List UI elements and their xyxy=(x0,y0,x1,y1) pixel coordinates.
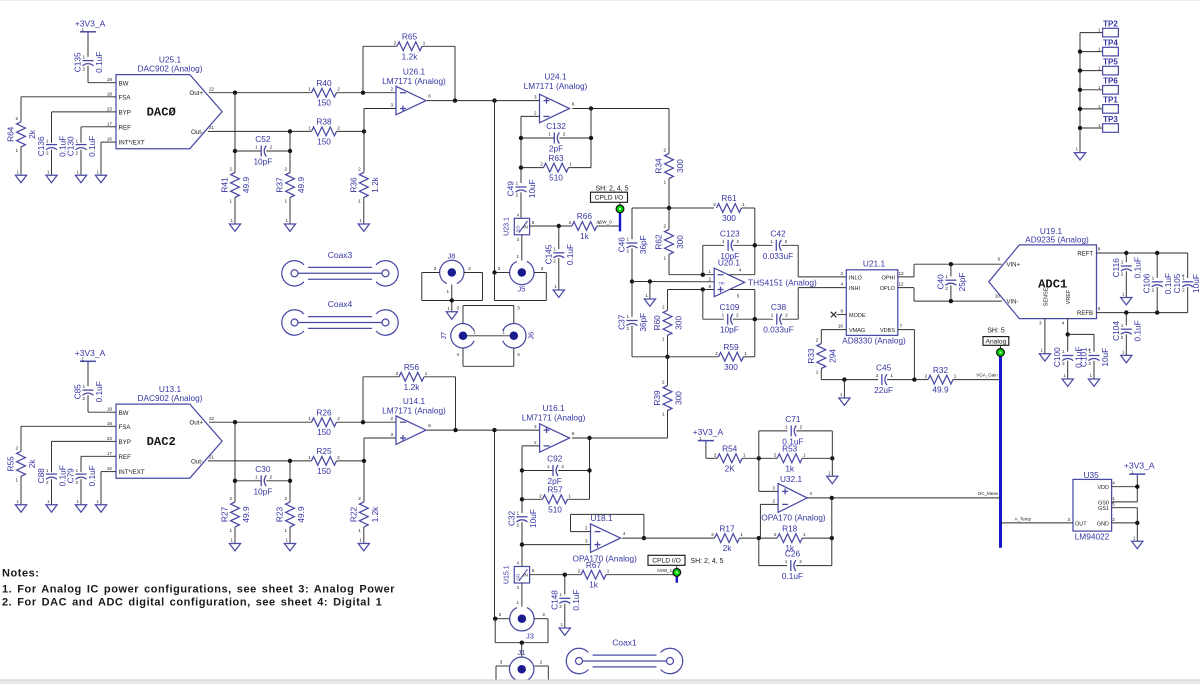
wire R37 column xyxy=(289,131,291,172)
wire xyxy=(742,457,759,459)
svg-text:C38: C38 xyxy=(771,302,787,312)
junction xyxy=(453,428,457,432)
resistor R37 49.9 xyxy=(286,173,295,198)
svg-text:2: 2 xyxy=(714,452,717,457)
wire U15 pin6 xyxy=(530,574,581,576)
wire J8 pin3 xyxy=(422,272,440,274)
svg-text:49.9: 49.9 xyxy=(241,177,251,194)
svg-text:1: 1 xyxy=(771,313,774,318)
op-amp U18.1 xyxy=(591,524,621,553)
wire U24 -in xyxy=(521,115,540,117)
wire J5 box right xyxy=(545,273,547,301)
op-amp U16.1 LM7171 (Analog) xyxy=(540,424,570,452)
svg-text:R59: R59 xyxy=(723,342,739,352)
svg-text:AD8330 (Analog): AD8330 (Analog) xyxy=(842,336,906,346)
svg-text:7: 7 xyxy=(900,324,903,329)
wire xyxy=(364,437,396,439)
capacitor C130 0.1uF xyxy=(76,144,87,146)
svg-text:5: 5 xyxy=(1112,502,1115,507)
connector Coax4 coax xyxy=(282,310,304,335)
wire xyxy=(522,498,543,500)
svg-text:BW: BW xyxy=(119,80,129,87)
svg-text:0.1uF: 0.1uF xyxy=(94,381,104,402)
svg-text:1: 1 xyxy=(816,370,819,375)
svg-text:18: 18 xyxy=(107,421,113,426)
connector J3 BNC xyxy=(510,608,534,631)
junction xyxy=(288,149,292,153)
junction xyxy=(362,459,366,463)
svg-text:2: 2 xyxy=(284,496,287,501)
svg-text:1: 1 xyxy=(1098,66,1101,71)
ground xyxy=(229,544,240,551)
wire C26 left xyxy=(758,538,760,566)
svg-text:R18: R18 xyxy=(782,523,798,533)
svg-text:0.1uF: 0.1uF xyxy=(565,244,575,265)
svg-text:1: 1 xyxy=(627,237,630,242)
svg-text:150: 150 xyxy=(317,427,331,437)
svg-text:VDD: VDD xyxy=(1097,485,1109,491)
wire xyxy=(706,457,717,459)
svg-text:U32.1: U32.1 xyxy=(780,474,803,484)
svg-text:R22: R22 xyxy=(348,507,358,523)
svg-text:300: 300 xyxy=(675,235,685,249)
svg-text:1: 1 xyxy=(722,313,725,318)
wire xyxy=(363,376,399,378)
ground xyxy=(284,544,295,551)
wire INLO xyxy=(798,276,846,278)
wire xyxy=(802,457,832,459)
svg-text:16: 16 xyxy=(838,324,844,329)
ground xyxy=(46,175,57,182)
svg-text:294: 294 xyxy=(827,349,837,363)
wire OPLO xyxy=(898,287,914,289)
wire xyxy=(667,335,669,357)
svg-text:1: 1 xyxy=(284,528,287,533)
wire C116 top xyxy=(1125,253,1127,262)
svg-text:2k: 2k xyxy=(27,459,37,469)
svg-text:C46: C46 xyxy=(617,237,627,253)
wire xyxy=(1125,334,1127,355)
ground xyxy=(1132,541,1143,548)
svg-text:+3V3_A: +3V3_A xyxy=(75,348,106,358)
wire xyxy=(1125,271,1127,297)
wire U18 fb left xyxy=(570,514,572,531)
svg-text:R32: R32 xyxy=(933,365,949,375)
svg-text:10: 10 xyxy=(995,294,1001,299)
svg-text:1: 1 xyxy=(255,145,258,150)
svg-text:0.1uF: 0.1uF xyxy=(782,436,803,446)
wire VDBS down xyxy=(913,330,915,380)
power +3V3_A xyxy=(1129,473,1145,475)
wire U23 pin6 xyxy=(530,225,572,227)
wire gnd stub xyxy=(451,301,453,312)
capacitor C49 10uF xyxy=(516,186,527,188)
svg-text:2: 2 xyxy=(585,526,588,531)
wire R65 fb left xyxy=(362,46,364,92)
svg-text:1: 1 xyxy=(708,269,711,274)
ground xyxy=(15,505,26,512)
resistor R17 2k xyxy=(715,534,740,543)
wire J3 pin2 xyxy=(495,618,510,620)
svg-text:FSA: FSA xyxy=(119,424,132,431)
svg-text:2: 2 xyxy=(840,271,843,276)
svg-text:2: 2 xyxy=(498,266,501,271)
svg-text:1: 1 xyxy=(1098,47,1101,52)
svg-text:6: 6 xyxy=(532,568,535,573)
svg-text:10uF: 10uF xyxy=(528,509,538,528)
svg-text:2: 2 xyxy=(553,259,556,264)
wire xyxy=(568,498,590,500)
svg-text:1: 1 xyxy=(553,247,556,252)
svg-text:1: 1 xyxy=(286,538,289,543)
wire U18 fb right xyxy=(643,514,645,538)
wire fb left column lower xyxy=(521,446,523,513)
wire xyxy=(564,604,566,629)
junction xyxy=(233,149,237,153)
wire xyxy=(80,150,82,176)
capacitor C92 2pF xyxy=(552,465,554,476)
svg-text:DAC902 (Analog): DAC902 (Analog) xyxy=(137,64,202,74)
svg-text:1: 1 xyxy=(446,289,449,294)
junction xyxy=(520,542,524,546)
wire R41 column xyxy=(234,93,236,173)
svg-text:C109: C109 xyxy=(719,302,739,312)
svg-text:THS4151 (Analog): THS4151 (Analog) xyxy=(748,277,817,287)
svg-text:300: 300 xyxy=(674,315,684,329)
power +3V3_A xyxy=(698,440,714,442)
wire J5 pin2 xyxy=(495,272,510,274)
wire -in down xyxy=(759,504,761,538)
svg-text:CPLD I/O: CPLD I/O xyxy=(652,558,681,565)
svg-text:0.1uF: 0.1uF xyxy=(87,465,97,486)
svg-text:2: 2 xyxy=(46,150,49,155)
wire J5 pin3 xyxy=(534,272,546,274)
junction xyxy=(665,355,669,359)
wire xyxy=(754,245,756,274)
svg-text:C79: C79 xyxy=(66,468,76,484)
svg-text:36pF: 36pF xyxy=(638,235,648,254)
capacitor C106 0.1uF xyxy=(1152,281,1163,283)
svg-text:1: 1 xyxy=(1133,535,1136,540)
junction xyxy=(1124,251,1128,255)
wire xyxy=(1156,287,1158,313)
wire THS cm in xyxy=(632,281,714,283)
svg-text:1. For Analog IC power configu: 1. For Analog IC power configurations, s… xyxy=(2,583,395,595)
junction xyxy=(753,317,757,321)
svg-text:10uF: 10uF xyxy=(1100,348,1110,367)
wire xyxy=(20,476,22,505)
wire R39 top xyxy=(667,357,669,386)
wire xyxy=(754,290,756,320)
resistor R63 510 xyxy=(544,163,569,172)
wire xyxy=(88,82,110,84)
wire xyxy=(559,137,591,139)
svg-text:+3V3_A: +3V3_A xyxy=(75,18,106,28)
svg-text:1: 1 xyxy=(76,468,79,473)
svg-text:1: 1 xyxy=(97,499,100,504)
svg-text:2: 2 xyxy=(800,424,803,429)
svg-text:300: 300 xyxy=(722,213,736,223)
wire xyxy=(21,425,110,427)
svg-text:SH: 2, 4, 5: SH: 2, 4, 5 xyxy=(690,558,723,565)
junction xyxy=(642,536,646,540)
svg-text:2: 2 xyxy=(1182,288,1185,293)
svg-text:2K: 2K xyxy=(725,463,736,473)
wire xyxy=(51,150,53,176)
wire xyxy=(744,356,755,358)
wire INHI xyxy=(798,287,846,289)
junction xyxy=(1124,310,1128,314)
svg-text:19: 19 xyxy=(107,407,113,412)
svg-text:2: 2 xyxy=(816,338,819,343)
svg-text:Coax3: Coax3 xyxy=(328,250,353,260)
wire xyxy=(703,244,724,246)
wire U26 out xyxy=(427,100,495,102)
svg-text:R56: R56 xyxy=(404,362,420,372)
svg-text:1: 1 xyxy=(516,600,519,605)
svg-text:150: 150 xyxy=(317,466,331,476)
svg-text:1: 1 xyxy=(1122,349,1125,354)
svg-text:300: 300 xyxy=(675,159,685,173)
wire xyxy=(558,258,560,290)
svg-text:2: 2 xyxy=(270,145,273,150)
wire xyxy=(569,167,592,169)
junction xyxy=(589,136,593,140)
svg-text:1: 1 xyxy=(663,256,666,261)
svg-text:1: 1 xyxy=(646,293,649,298)
wire xyxy=(51,441,53,472)
svg-text:1: 1 xyxy=(828,470,831,475)
svg-text:IN: IN xyxy=(523,573,528,578)
wire R39 bottom xyxy=(667,411,669,439)
junction xyxy=(233,420,237,424)
wire TP chain vertical xyxy=(1079,33,1081,153)
svg-text:1: 1 xyxy=(548,132,551,137)
junction xyxy=(453,98,457,102)
svg-text:1.2k: 1.2k xyxy=(370,176,380,193)
wire J1 top link xyxy=(521,643,523,657)
junction xyxy=(492,428,496,432)
wire J6 bottom pin xyxy=(513,348,515,366)
svg-text:INHI: INHI xyxy=(849,286,860,292)
wire U14 out xyxy=(427,429,495,431)
wire xyxy=(88,411,110,413)
svg-text:C88: C88 xyxy=(36,468,46,484)
wire R23 column xyxy=(289,461,291,502)
wire xyxy=(759,430,788,432)
resistor R65 1.2k xyxy=(397,42,422,51)
svg-text:2: 2 xyxy=(563,132,566,137)
svg-text:REFT: REFT xyxy=(1077,251,1093,257)
svg-text:36pF: 36pF xyxy=(638,313,648,332)
wire C123 left xyxy=(702,245,704,274)
svg-text:2: 2 xyxy=(540,660,543,665)
wire R33 top xyxy=(820,330,822,344)
wire U18 fb top xyxy=(571,513,644,515)
wire xyxy=(887,379,914,381)
wire J8 pin2 xyxy=(464,272,483,274)
wire C106 top xyxy=(1156,253,1158,278)
svg-text:+: + xyxy=(1088,347,1091,353)
resistor R22 1.2k xyxy=(359,502,368,527)
junction xyxy=(519,136,523,140)
wire J7 top pin xyxy=(462,306,464,324)
wire U18 +in xyxy=(522,544,591,546)
wire J8 box bottom xyxy=(422,300,483,302)
resistor R62 300 xyxy=(665,230,674,255)
wire xyxy=(495,429,540,431)
capacitor C109 10pF xyxy=(727,314,729,325)
wire THS out+ xyxy=(729,274,755,276)
svg-text:LM7171 (Analog): LM7171 (Analog) xyxy=(382,76,446,86)
svg-text:J3: J3 xyxy=(526,632,534,641)
svg-text:2: 2 xyxy=(626,249,629,254)
svg-text:IN: IN xyxy=(523,225,528,230)
capacitor C85 0.1uF xyxy=(83,389,94,391)
op-amp U14.1 LM7171 (Analog) xyxy=(396,416,426,445)
svg-text:C42: C42 xyxy=(770,228,786,238)
wire C37 top xyxy=(631,282,633,317)
svg-text:1: 1 xyxy=(231,538,234,543)
svg-text:3: 3 xyxy=(1039,321,1042,326)
wire xyxy=(266,150,290,152)
svg-text:1: 1 xyxy=(97,169,100,174)
svg-text:SH: 2, 4, 5: SH: 2, 4, 5 xyxy=(595,185,628,192)
svg-text:12: 12 xyxy=(898,282,904,287)
svg-text:1.2k: 1.2k xyxy=(370,506,380,523)
svg-text:0.033uF: 0.033uF xyxy=(763,251,793,261)
resistor R53 1k xyxy=(777,454,802,463)
svg-text:1: 1 xyxy=(358,199,361,204)
junction xyxy=(520,641,524,645)
svg-text:1.2k: 1.2k xyxy=(404,382,421,392)
svg-text:10pF: 10pF xyxy=(253,486,272,496)
connector J8 BNC xyxy=(440,260,464,283)
svg-text:0.1uF: 0.1uF xyxy=(1132,320,1142,341)
svg-text:2: 2 xyxy=(534,110,537,115)
wire xyxy=(782,318,798,320)
wire VIN- xyxy=(914,300,1002,302)
wire R62 bottom xyxy=(668,255,670,275)
svg-text:300: 300 xyxy=(724,362,738,372)
svg-text:9: 9 xyxy=(997,257,1000,262)
svg-text:2k: 2k xyxy=(723,543,733,553)
svg-text:BW: BW xyxy=(119,410,129,417)
junction xyxy=(1078,126,1082,130)
wire to U32 +in xyxy=(758,458,760,491)
wire C26 right xyxy=(831,538,833,566)
svg-text:REF: REF xyxy=(119,124,132,131)
wire GS1 down xyxy=(1136,508,1138,523)
svg-text:C100: C100 xyxy=(1052,347,1062,367)
capacitor C38 0.033uF xyxy=(776,314,778,325)
connector J5 BNC xyxy=(510,261,534,284)
svg-text:1: 1 xyxy=(517,511,520,516)
wire U18 -in xyxy=(571,531,591,533)
wire REFB xyxy=(1097,312,1188,314)
svg-text:TP6: TP6 xyxy=(1103,77,1118,86)
ground xyxy=(75,505,86,512)
wire xyxy=(101,141,110,143)
svg-text:DC_Meas: DC_Meas xyxy=(978,491,999,496)
svg-text:1: 1 xyxy=(1098,123,1101,128)
svg-text:1: 1 xyxy=(358,528,361,533)
svg-text:C49: C49 xyxy=(506,181,516,197)
wire U16 out row xyxy=(590,437,668,439)
svg-text:10pF: 10pF xyxy=(253,157,272,167)
wire xyxy=(914,379,928,381)
capacitor C123 10pF xyxy=(727,240,729,251)
svg-text:CPLD I/O: CPLD I/O xyxy=(595,195,624,202)
svg-text:INT*/EXT: INT*/EXT xyxy=(119,140,145,147)
svg-text:1: 1 xyxy=(1062,349,1065,354)
wire xyxy=(364,108,396,110)
svg-text:3: 3 xyxy=(542,612,545,617)
wire J8 box right xyxy=(482,273,484,301)
svg-text:3: 3 xyxy=(1067,517,1070,522)
junction xyxy=(492,98,496,102)
svg-text:R17: R17 xyxy=(719,523,735,533)
wire R62 top xyxy=(668,208,670,230)
svg-text:2: 2 xyxy=(561,464,564,469)
svg-text:6: 6 xyxy=(428,94,431,99)
resistor R40 150 xyxy=(312,88,337,97)
DAC U25.1 DAC902 xyxy=(116,75,222,149)
svg-text:1: 1 xyxy=(954,374,957,379)
resistor R39 300 xyxy=(663,386,672,411)
svg-text:10uF: 10uF xyxy=(527,179,537,198)
svg-text:1: 1 xyxy=(516,254,519,259)
wire xyxy=(1187,287,1189,313)
svg-text:J8: J8 xyxy=(448,252,456,261)
wire xyxy=(80,479,82,505)
capacitor C100 0.1uF xyxy=(1062,355,1073,357)
svg-text:19: 19 xyxy=(107,77,113,82)
svg-text:1: 1 xyxy=(17,499,20,504)
capacitor C42 0.033uF xyxy=(775,240,777,251)
svg-text:2: 2 xyxy=(390,416,393,421)
wire xyxy=(521,522,523,567)
wire J1 box left xyxy=(495,666,497,682)
wire xyxy=(337,92,397,94)
wire C42 right down xyxy=(797,245,799,277)
svg-text:2: 2 xyxy=(15,116,18,121)
connector J7 BNC xyxy=(451,324,474,348)
wire xyxy=(1067,361,1069,379)
svg-text:22: 22 xyxy=(209,87,215,92)
svg-text:2: 2 xyxy=(390,87,393,92)
wire C46 top xyxy=(631,208,633,239)
wire J8 pin1 xyxy=(451,285,453,301)
svg-text:2: 2 xyxy=(713,202,716,207)
junction xyxy=(842,377,846,381)
wire C101 top xyxy=(1093,334,1095,351)
wire Out+ DAC0 xyxy=(209,92,312,94)
wire xyxy=(781,244,798,246)
svg-text:3: 3 xyxy=(773,485,776,490)
wire xyxy=(521,167,544,169)
svg-text:C135: C135 xyxy=(73,52,83,72)
svg-text:cm: cm xyxy=(719,280,725,285)
wire J7 bottom pin xyxy=(462,348,464,366)
svg-text:2: 2 xyxy=(569,220,572,225)
svg-text:BYP: BYP xyxy=(119,439,131,446)
wire xyxy=(337,421,397,423)
svg-text:1: 1 xyxy=(502,330,505,335)
wire Out- DAC0 xyxy=(208,130,312,132)
svg-text:6: 6 xyxy=(532,220,535,225)
svg-text:2: 2 xyxy=(945,286,948,291)
